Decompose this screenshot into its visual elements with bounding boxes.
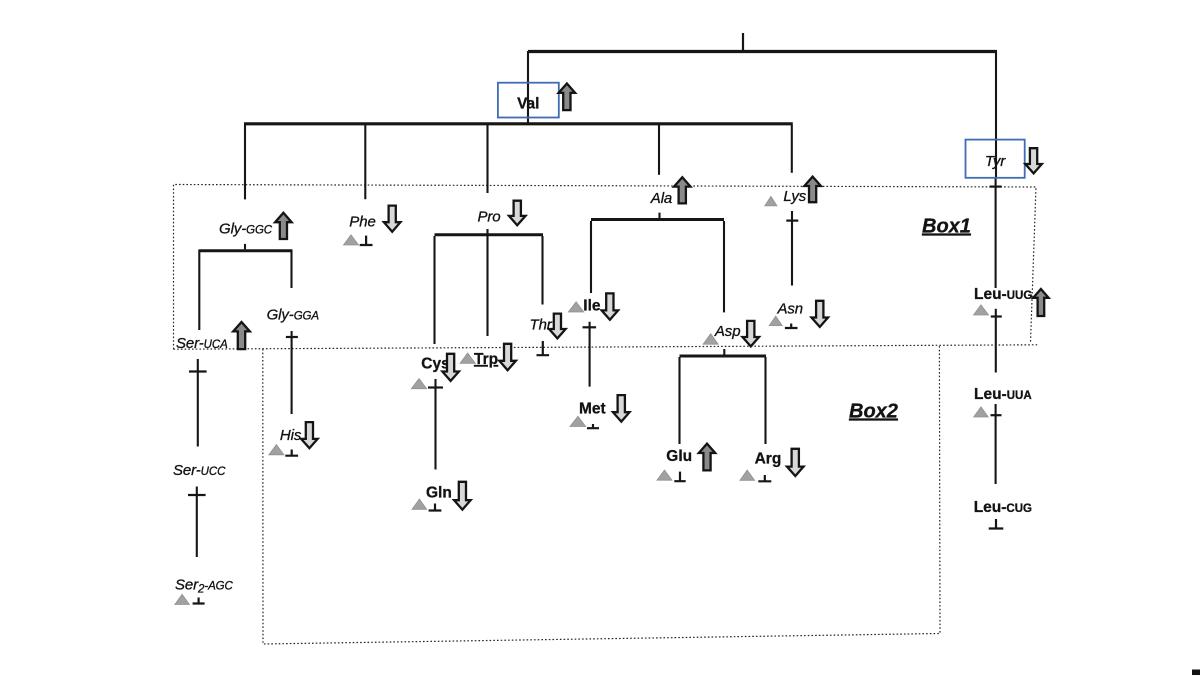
wire stub Ala upper xyxy=(658,125,660,175)
wire Cys leg xyxy=(433,236,435,344)
wire Gly right leg xyxy=(290,250,292,289)
svg-text:Gln: Gln xyxy=(426,485,452,502)
wire Pro mid branch xyxy=(486,229,488,336)
down arrow His xyxy=(301,422,318,448)
hatch mark (cross) on Gln branch xyxy=(428,386,443,388)
wire Asp joint stub xyxy=(723,349,725,356)
wire Asp leg xyxy=(723,221,725,312)
triangle marker His xyxy=(269,445,284,455)
svg-text:Val: Val xyxy=(517,96,539,113)
down arrow Tyr xyxy=(1025,148,1042,173)
tip mark (perpendicular) Arg xyxy=(758,475,771,481)
up arrow Ser-UCA xyxy=(233,322,250,349)
wire drop to Tyr xyxy=(995,51,997,178)
up arrow Glu xyxy=(699,444,715,471)
svg-text:Ile: Ile xyxy=(583,298,601,315)
dotted frame Box1 xyxy=(174,185,1040,350)
triangle marker Lys xyxy=(765,196,777,206)
down arrow Asp xyxy=(743,321,760,347)
up arrow Gly-GGC xyxy=(275,213,292,239)
branch bar level-2 joint xyxy=(244,122,793,125)
svg-text:Arg: Arg xyxy=(755,451,782,468)
down arrow Trp xyxy=(499,344,516,370)
hatch mark (cross) on Met branch xyxy=(583,326,597,328)
triangle marker Glu xyxy=(657,470,672,480)
svg-text:Ala: Ala xyxy=(650,190,672,207)
tip mark (perpendicular) Thr xyxy=(537,341,550,355)
wire Leu branch 1 xyxy=(995,178,997,288)
hatch mark (cross) on His branch xyxy=(286,336,298,338)
wire stub Pro upper xyxy=(486,125,488,193)
hatch mark (cross) on Leu branch 3 xyxy=(991,414,1002,416)
down arrow Pro xyxy=(509,201,526,226)
triangle marker Ser2-AGC xyxy=(175,594,190,604)
tip mark (perpendicular) Leu-CUG xyxy=(989,519,1004,529)
svg-text:Glu: Glu xyxy=(666,448,692,465)
tip mark (perpendicular) Glu xyxy=(674,472,685,482)
branch bar Ala joint xyxy=(591,218,724,221)
triangle marker Asp xyxy=(703,334,718,345)
down arrow Gln xyxy=(454,482,471,510)
up arrow Val xyxy=(559,84,576,111)
down arrow Thr xyxy=(549,314,566,339)
hatch mark (cross) on Asn branch xyxy=(786,220,798,222)
triangle marker Asn xyxy=(769,316,782,326)
up arrow Lys xyxy=(804,177,821,203)
triangle marker Cys xyxy=(411,379,426,389)
down arrow Met xyxy=(613,395,630,422)
wire Thr leg xyxy=(541,236,543,305)
up arrow Leu-UUG xyxy=(1033,289,1048,316)
tip mark (perpendicular) Met xyxy=(587,424,599,428)
hatch mark (cross) on Ser branch 2 xyxy=(188,494,206,496)
wire root tip xyxy=(742,33,744,51)
down arrow Asn xyxy=(812,301,829,327)
svg-text:Cys: Cys xyxy=(421,356,449,373)
wire stub Ala lower xyxy=(658,213,660,220)
wire His branch xyxy=(291,331,293,414)
wire Ile leg xyxy=(590,221,592,293)
triangle marker Trp xyxy=(460,353,475,363)
svg-text:Met: Met xyxy=(579,401,606,418)
svg-text:His: His xyxy=(280,427,302,444)
svg-text:Box2: Box2 xyxy=(849,401,898,423)
svg-text:Tyr: Tyr xyxy=(985,153,1006,170)
hatch mark (cross) on Ser branch 1 xyxy=(189,370,207,372)
down arrow Phe xyxy=(384,206,401,232)
triangle marker Ile xyxy=(568,302,583,312)
scan artifact corner mark xyxy=(1192,670,1200,675)
highlight box Tyr xyxy=(966,140,1025,178)
wire Leu branch 3 xyxy=(995,404,997,484)
triangle marker Arg xyxy=(740,470,755,480)
wire Leu branch 2 xyxy=(995,309,997,373)
wire stub Lys xyxy=(791,125,793,173)
wire Asn branch xyxy=(791,211,793,286)
wire Arg leg xyxy=(764,357,766,444)
svg-text:Box1: Box1 xyxy=(922,216,971,238)
tip mark (perpendicular) Ser2-AGC xyxy=(193,598,205,604)
wire Gly left leg xyxy=(198,250,200,331)
branch bar Pro joint xyxy=(435,233,544,236)
svg-text:Asp: Asp xyxy=(714,323,741,340)
branch bar Gly joint xyxy=(199,249,292,252)
highlight box Val xyxy=(498,83,559,118)
wire stub Phe xyxy=(364,125,366,199)
triangle marker Leu-UUG xyxy=(974,305,989,315)
down arrow Ile xyxy=(602,293,619,319)
tip mark (perpendicular) His xyxy=(285,450,298,456)
tip mark (perpendicular) Phe xyxy=(360,236,373,245)
svg-text:Trp: Trp xyxy=(474,351,498,368)
branch bar root joint xyxy=(528,50,997,53)
triangle marker Gln xyxy=(412,499,427,509)
svg-text:Asn: Asn xyxy=(777,300,804,317)
svg-text:Phe: Phe xyxy=(349,214,375,231)
wire stub Gly xyxy=(244,125,246,199)
wire Gln branch xyxy=(434,379,436,470)
triangle marker Leu-UUA xyxy=(974,407,989,417)
wire Glu leg xyxy=(678,357,680,444)
wire stub Gly-GGC lower xyxy=(244,244,246,249)
wire Ser branch 1 xyxy=(197,359,199,447)
wire Ser branch 2 xyxy=(196,487,198,558)
branch bar Asp joint xyxy=(680,355,767,358)
triangle marker Met xyxy=(570,416,586,426)
down arrow Arg xyxy=(787,449,804,476)
wire drop to Val xyxy=(527,51,529,123)
wire Met branch xyxy=(589,322,591,387)
dotted frame Box2 xyxy=(263,345,940,644)
hatch mark (cross) below Tyr xyxy=(990,186,1002,188)
svg-text:Lys: Lys xyxy=(783,188,806,205)
tip mark (perpendicular) Gln xyxy=(429,504,442,511)
hatch mark (cross) on Leu branch 2 xyxy=(991,315,1002,317)
triangle marker Phe xyxy=(344,235,359,245)
down arrow Cys xyxy=(442,354,459,381)
up arrow Ala xyxy=(674,177,691,203)
tip mark (perpendicular) Asn xyxy=(785,324,798,329)
svg-text:Pro: Pro xyxy=(477,209,500,226)
